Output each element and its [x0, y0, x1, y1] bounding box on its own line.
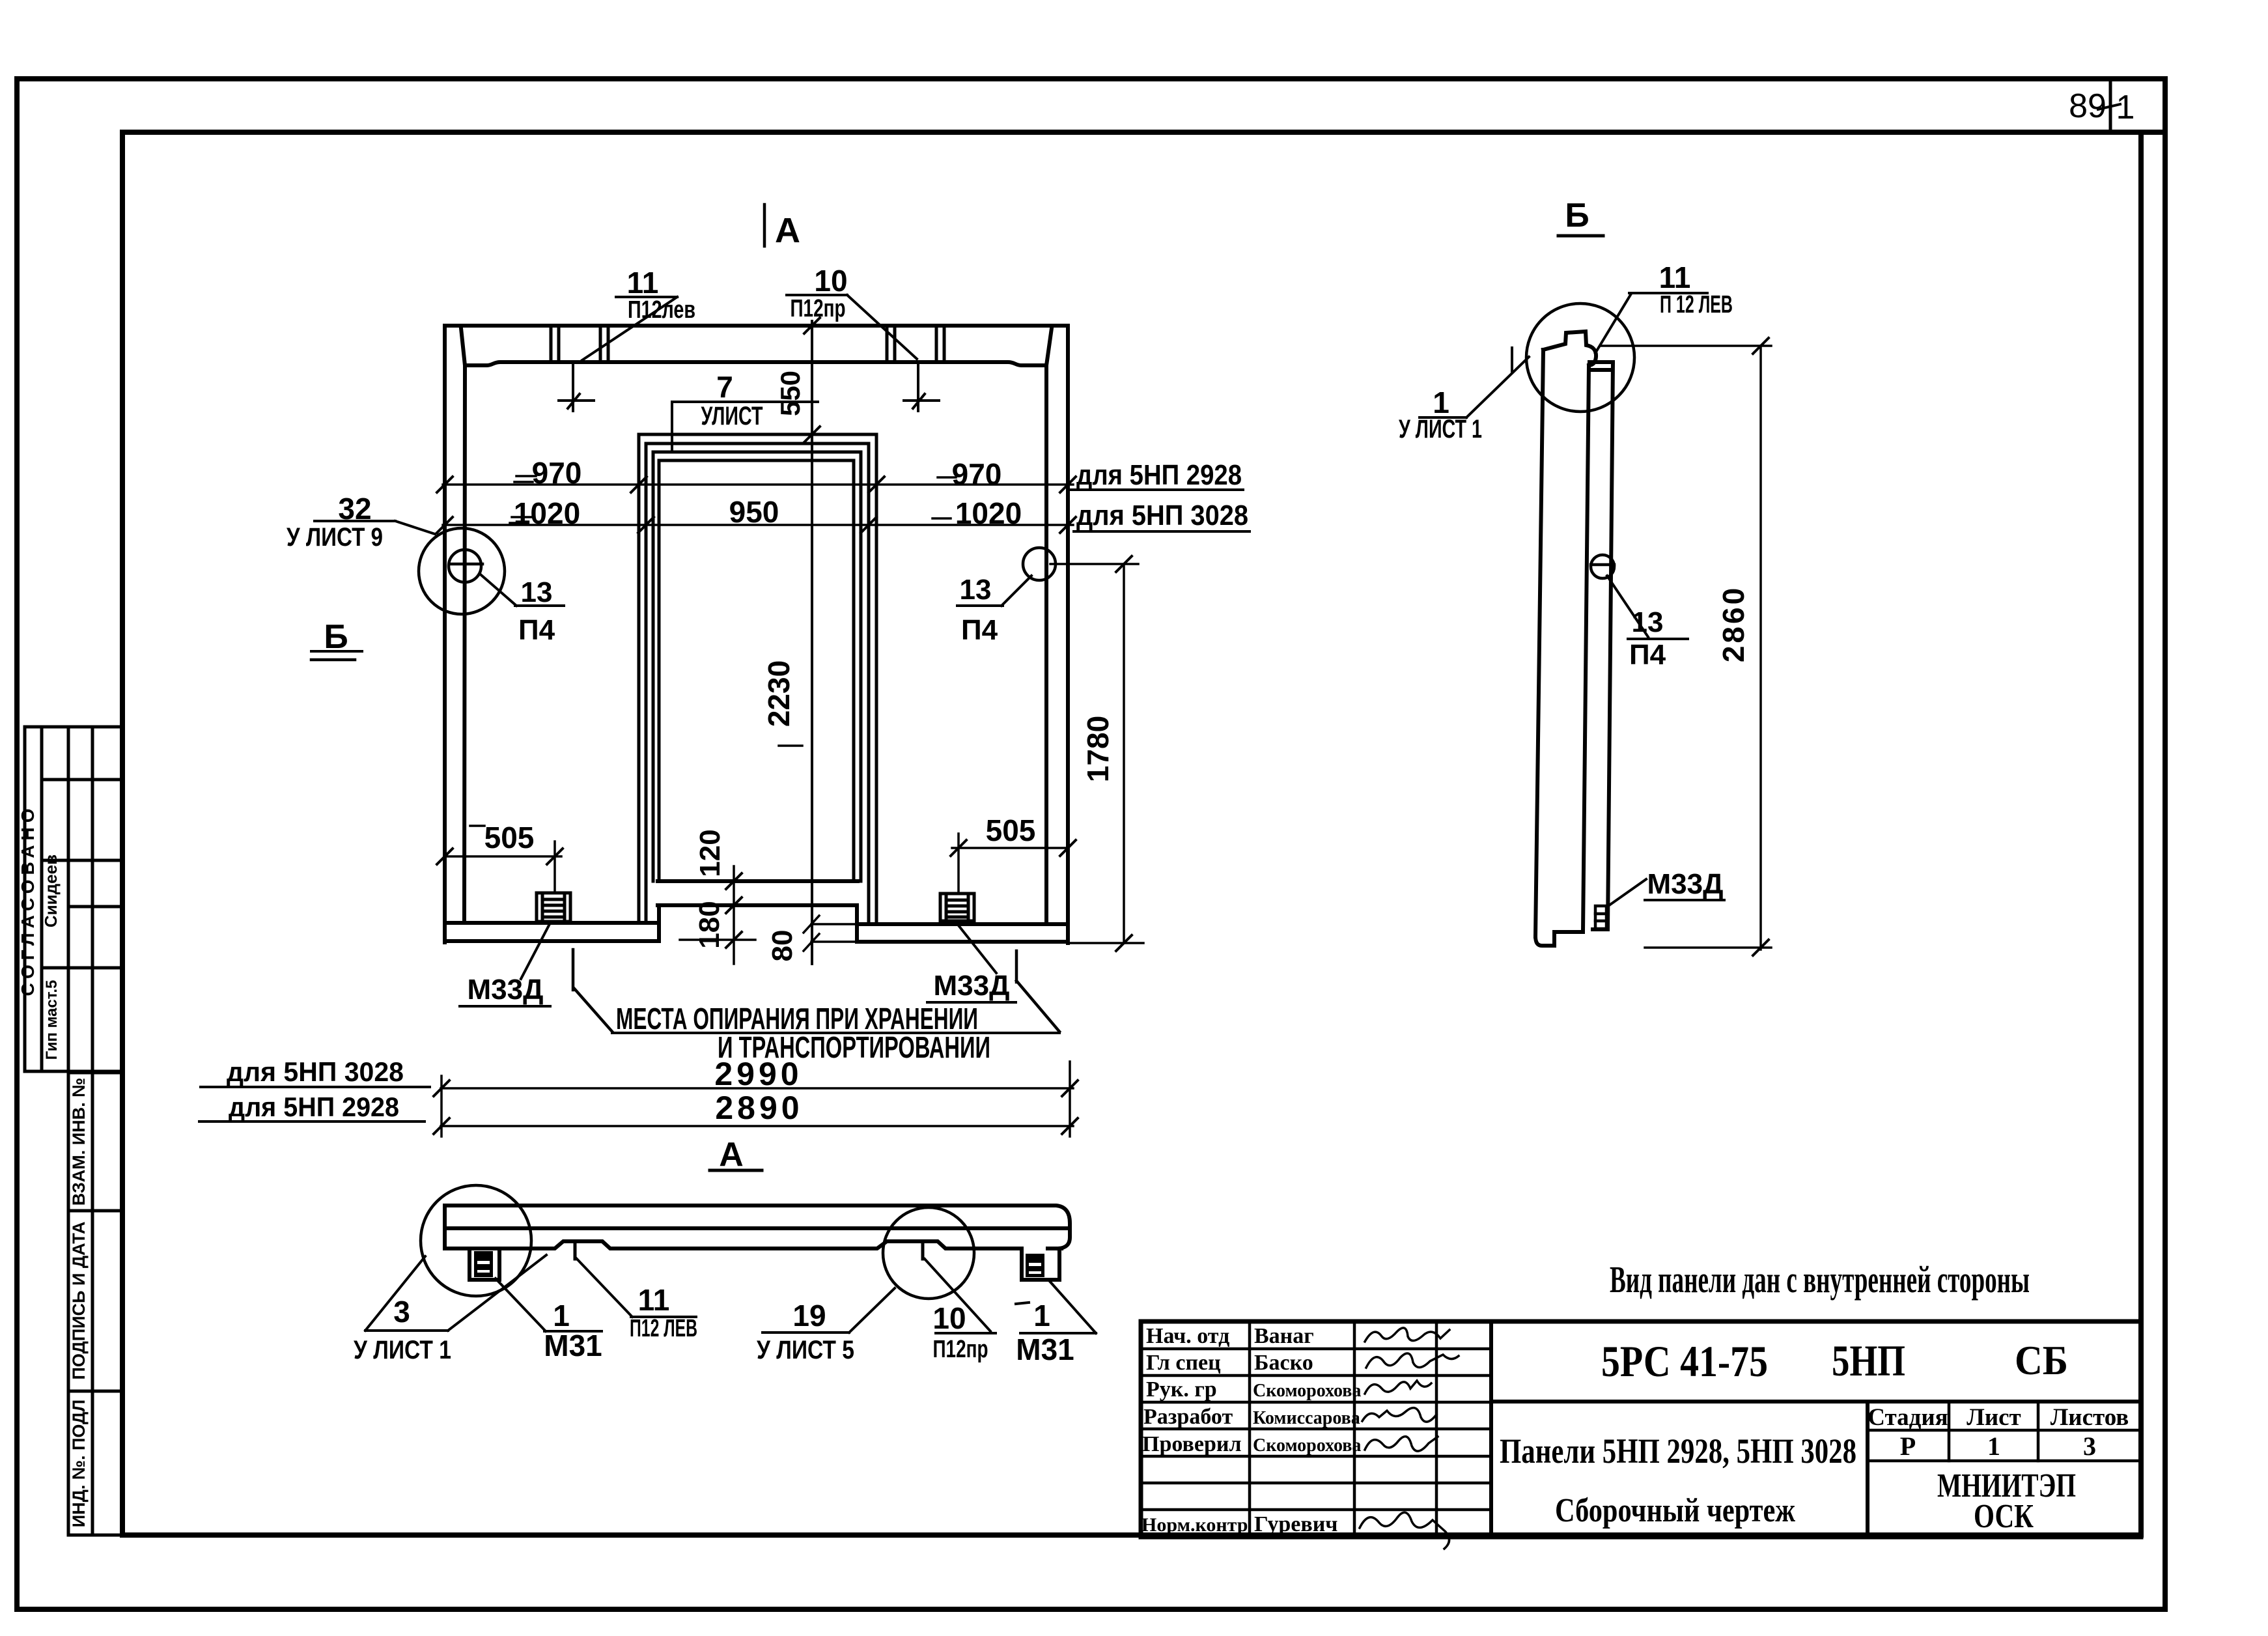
- svg-text:М33Д: М33Д: [934, 970, 1010, 1002]
- note для 5НП 2928: [1076, 459, 1248, 531]
- svg-text:180: 180: [693, 901, 725, 948]
- svg-text:Лист: Лист: [1967, 1404, 2021, 1431]
- М31 anchor black square left: [474, 1251, 493, 1277]
- svg-text:11: 11: [638, 1283, 670, 1317]
- panel outline top edge: [445, 324, 1068, 328]
- svg-text:Рук. гр: Рук. гр: [1146, 1377, 1217, 1402]
- svg-text:Разработ: Разработ: [1143, 1405, 1233, 1429]
- svg-text:П4: П4: [518, 614, 555, 646]
- svg-text:Скоморохова: Скоморохова: [1253, 1435, 1361, 1456]
- svg-text:ПОДПИСЬ И ДАТА: ПОДПИСЬ И ДАТА: [69, 1221, 89, 1379]
- svg-text:Ванаг: Ванаг: [1254, 1324, 1314, 1348]
- label 10 П12пр: [932, 1301, 988, 1363]
- lifting key mark П12пр vertical: [917, 362, 919, 411]
- door right jamb lines: [875, 434, 878, 924]
- lifting loop П4 left: [449, 550, 483, 582]
- dimension 505 left: [437, 826, 563, 893]
- svg-text:для 5НП 3028: для 5НП 3028: [1076, 500, 1248, 531]
- svg-text:1780: 1780: [1081, 716, 1115, 782]
- svg-text:13: 13: [1632, 606, 1664, 638]
- М31 anchor black square right: [1026, 1254, 1044, 1277]
- leader 13 right: [1001, 576, 1031, 606]
- panel left outer edge: [443, 326, 447, 942]
- label 11 П12лев top: [627, 266, 695, 324]
- svg-text:2860: 2860: [1716, 585, 1750, 662]
- anchor block left outline: [469, 1248, 499, 1280]
- svg-text:10: 10: [814, 264, 847, 298]
- svg-text:80: 80: [766, 930, 798, 962]
- inner drawing frame: [122, 132, 2141, 1535]
- label 13 П4 left: [518, 576, 555, 646]
- svg-text:для 5НП 3028: для 5НП 3028: [227, 1056, 404, 1087]
- svg-text:13: 13: [960, 574, 992, 606]
- bottom strip left: top line: [445, 921, 659, 925]
- door opening frame lines: [639, 434, 876, 924]
- svg-text:Сборочный чертеж: Сборочный чертеж: [1555, 1492, 1795, 1529]
- bottom strip left: end vertical: [657, 905, 661, 941]
- detail circle left on section: [421, 1185, 531, 1296]
- panel left inner edge with top chamfer: [461, 328, 465, 923]
- side view left edge: [1535, 350, 1543, 937]
- side view bottom profile: [1535, 932, 1583, 946]
- section arrow А top: [763, 204, 766, 246]
- bottom strip left: bottom line: [445, 939, 659, 943]
- svg-text:1: 1: [1987, 1431, 2000, 1461]
- support arrow left: [572, 950, 575, 990]
- left margin stamp: approval block: [25, 727, 122, 1071]
- svg-text:У ЛИСТ 9: У ЛИСТ 9: [287, 523, 383, 552]
- dimension line 1020/950/1020: [437, 517, 1076, 533]
- svg-text:П12 ЛЕВ: П12 ЛЕВ: [630, 1315, 697, 1342]
- bottom strip right: end vertical: [855, 905, 859, 942]
- svg-text:1020: 1020: [514, 496, 580, 530]
- label 11 П12 ЛЕВ side: [1659, 261, 1733, 318]
- svg-text:У ЛИСТ 1: У ЛИСТ 1: [354, 1336, 451, 1364]
- svg-text:для 5НП 2928: для 5НП 2928: [229, 1092, 399, 1122]
- dimension 2860: [1601, 338, 1771, 955]
- sheet number text 89-1: [2069, 87, 2135, 126]
- svg-text:А: А: [719, 1136, 744, 1174]
- svg-text:П12пр: П12пр: [933, 1336, 988, 1363]
- lifting loop П4 right: [1023, 548, 1056, 580]
- side view rib top lines: [1589, 360, 1613, 364]
- detail circle У ЛИСТ 9 on left edge: [419, 528, 505, 614]
- svg-text:П4: П4: [1629, 639, 1666, 671]
- signatures: [1360, 1328, 1459, 1549]
- label 19 У ЛИСТ 5: [757, 1299, 854, 1364]
- anchor block right outline: [1022, 1248, 1059, 1280]
- side view rib right line: [1608, 362, 1613, 929]
- bottom strip right: bottom line: [857, 940, 1068, 944]
- label 1 М31: [544, 1299, 602, 1362]
- dimension 2990: [434, 1062, 1078, 1136]
- svg-text:950: 950: [729, 495, 779, 529]
- svg-text:11: 11: [627, 266, 659, 300]
- svg-text:П12лев: П12лев: [628, 296, 695, 324]
- svg-text:2890: 2890: [715, 1090, 803, 1126]
- panel right outer edge: [1066, 326, 1070, 943]
- label 32 У ЛИСТ 9: [287, 492, 383, 552]
- svg-text:Нач. отд: Нач. отд: [1146, 1324, 1229, 1348]
- dimension 505 right: [951, 834, 1076, 894]
- svg-text:М31: М31: [544, 1329, 602, 1362]
- svg-text:Проверил: Проверил: [1142, 1432, 1242, 1456]
- svg-text:Панели 5НП 2928, 5НП 3028: Панели 5НП 2928, 5НП 3028: [1500, 1431, 1856, 1471]
- label 7 У ЛИСТ: [701, 370, 763, 430]
- svg-text:13: 13: [521, 576, 553, 608]
- svg-text:Гип маcт.5: Гип маcт.5: [43, 980, 61, 1060]
- svg-text:Вид панели дан с внутренней ст: Вид панели дан с внутренней стороны: [1610, 1258, 2030, 1301]
- detail circle right on section: [883, 1207, 974, 1299]
- left margin stamp: подпись и дата block: [68, 1211, 122, 1391]
- svg-text:ОСК: ОСК: [1974, 1498, 2034, 1535]
- title block row labels: [1141, 1324, 1361, 1536]
- door left jamb lines: [637, 434, 641, 923]
- side view top profile with key notch: [1543, 331, 1596, 365]
- top flange bottom line: [465, 362, 1046, 365]
- door sill bottom line: [658, 903, 857, 907]
- svg-text:970: 970: [532, 456, 582, 490]
- svg-text:П12пр: П12пр: [791, 295, 846, 322]
- left margin stamp: инв № подл block: [68, 1391, 122, 1535]
- svg-text:505: 505: [986, 813, 1036, 847]
- svg-text:М33Д: М33Д: [1647, 868, 1724, 900]
- sheet number box divider 89-1: [2109, 79, 2112, 132]
- svg-text:2230: 2230: [762, 660, 796, 727]
- svg-text:Баско: Баско: [1254, 1351, 1313, 1375]
- bottom strip right: top line: [857, 922, 1068, 926]
- svg-text:ИНД. №. ПОДЛ: ИНД. №. ПОДЛ: [69, 1400, 89, 1527]
- section bar right end: [1041, 1226, 1070, 1230]
- lifting loop box right (М33Д): [940, 894, 974, 921]
- svg-text:550: 550: [775, 371, 805, 416]
- dimension 80: [804, 916, 857, 951]
- svg-text:П 12 ЛЕВ: П 12 ЛЕВ: [1660, 291, 1733, 318]
- section bar bottom line with keyway bumps: [445, 1241, 1022, 1248]
- svg-text:11: 11: [1659, 261, 1691, 294]
- door top lines: [639, 433, 876, 436]
- top keyway lines right: [886, 326, 889, 362]
- svg-text:У ЛИСТ 5: У ЛИСТ 5: [757, 1336, 854, 1364]
- section bar left end: [443, 1206, 447, 1248]
- svg-text:3: 3: [393, 1295, 410, 1329]
- svg-text:970: 970: [952, 457, 1002, 491]
- document number: [1500, 1336, 2129, 1535]
- dimension line 970/970: [437, 476, 1076, 492]
- top keyway lines left: [551, 326, 944, 362]
- label 10 П12пр top: [791, 264, 848, 322]
- svg-text:Р: Р: [1900, 1431, 1916, 1461]
- label 1 У ЛИСТ 1 side: [1399, 386, 1482, 444]
- lifting key mark П12лев vertical: [559, 362, 939, 411]
- svg-text:СОГЛАСОВАНО: СОГЛАСОВАНО: [18, 804, 38, 996]
- П12 tick marks in section: [574, 1241, 577, 1259]
- svg-text:Листов: Листов: [2051, 1404, 2129, 1431]
- svg-text:У ЛИСТ 1: У ЛИСТ 1: [1399, 415, 1482, 444]
- leader 13 left: [481, 575, 516, 606]
- П4 loop on side view: [1591, 555, 1614, 578]
- svg-text:1: 1: [553, 1299, 570, 1333]
- svg-text:19: 19: [792, 1299, 826, 1333]
- svg-text:Стадия: Стадия: [1868, 1404, 1948, 1431]
- svg-text:89: 89: [2069, 87, 2107, 125]
- dimension 550 vertical on axis: [804, 318, 820, 333]
- svg-text:ВЗАМ. ИНВ. №: ВЗАМ. ИНВ. №: [69, 1078, 89, 1206]
- panel axis line: [811, 321, 813, 964]
- panel right inner edge with top chamfer: [1046, 328, 1052, 923]
- section bar top line: [445, 1206, 1070, 1248]
- label 11 П12 ЛЕВ: [630, 1283, 697, 1342]
- svg-text:Скоморохова: Скоморохова: [1253, 1381, 1361, 1401]
- svg-text:УЛИСТ: УЛИСТ: [701, 402, 763, 430]
- detail circle on side view top: [1526, 303, 1634, 412]
- svg-text:1: 1: [1033, 1299, 1050, 1333]
- svg-text:120: 120: [694, 829, 726, 877]
- section bar second line: [445, 1226, 1070, 1230]
- dimension 1780 vertical right: [1050, 556, 1143, 951]
- svg-text:2990: 2990: [714, 1056, 802, 1092]
- left margin stamp: взам инв block: [68, 1073, 122, 1535]
- svg-text:Сиидеев: Сиидеев: [41, 854, 61, 927]
- side view rib left line: [1583, 365, 1589, 931]
- svg-text:Гл спец: Гл спец: [1146, 1351, 1221, 1375]
- lifting loop box left (М33Д): [537, 893, 570, 922]
- dimension 120/180 chain: [680, 866, 755, 964]
- svg-text:505: 505: [484, 821, 535, 854]
- leader 32: [395, 521, 435, 534]
- text МЕСТА ОПИРАНИЯ: [616, 1002, 990, 1064]
- svg-text:10: 10: [932, 1301, 966, 1335]
- svg-text:5НП: 5НП: [1832, 1336, 1905, 1385]
- svg-text:М33Д: М33Д: [468, 974, 544, 1006]
- svg-text:3: 3: [2083, 1431, 2096, 1461]
- label 13 П4 right: [960, 574, 998, 646]
- svg-text:Комиссарова: Комиссарова: [1253, 1408, 1360, 1428]
- svg-text:1020: 1020: [955, 496, 1022, 530]
- door sill top line: [658, 879, 858, 883]
- svg-text:А: А: [775, 211, 800, 250]
- svg-text:5РС 41-75: 5РС 41-75: [1601, 1336, 1768, 1386]
- svg-text:1: 1: [2116, 89, 2135, 126]
- svg-text:СБ: СБ: [2015, 1337, 2068, 1383]
- svg-text:Б: Б: [1565, 197, 1589, 234]
- svg-text:П4: П4: [961, 614, 998, 646]
- М33Д anchor on side view: [1595, 906, 1606, 929]
- svg-text:для 5НП 2928: для 5НП 2928: [1076, 459, 1242, 491]
- svg-text:М31: М31: [1016, 1333, 1074, 1366]
- label 3 У ЛИСТ 1: [354, 1295, 451, 1364]
- label -1 М31: [1016, 1299, 1074, 1366]
- dimension 2890: [434, 1118, 1078, 1134]
- label 13 П4 side: [1629, 606, 1666, 671]
- svg-text:Норм.контр: Норм.контр: [1141, 1514, 1248, 1536]
- svg-text:7: 7: [716, 370, 733, 404]
- svg-text:Гуревич: Гуревич: [1254, 1512, 1337, 1536]
- support arrow right: [1015, 951, 1018, 982]
- rib bottom end: [1593, 927, 1608, 931]
